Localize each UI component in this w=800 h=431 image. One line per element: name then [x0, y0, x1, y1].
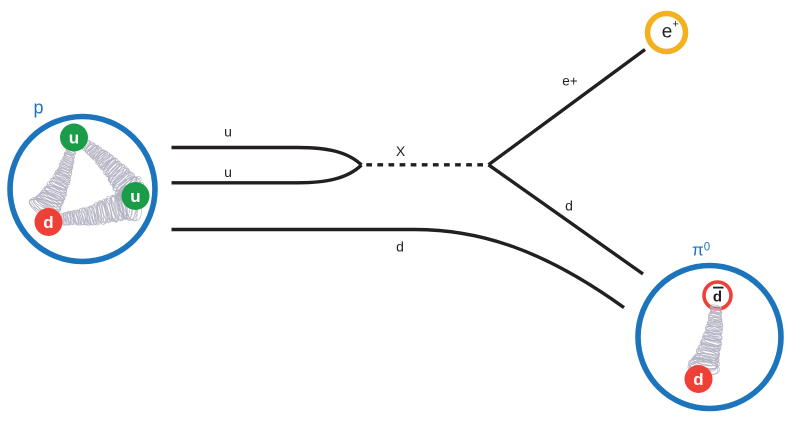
svg-text:d: d: [693, 370, 703, 389]
proton circle: [10, 117, 155, 262]
u quark line (second): [172, 165, 362, 183]
svg-text:d: d: [713, 289, 722, 306]
svg-text:u: u: [130, 187, 140, 206]
svg-text:d: d: [396, 239, 404, 255]
svg-text:e+: e+: [562, 74, 578, 89]
d quark line (from X vertex): [489, 165, 644, 274]
svg-text:p: p: [33, 98, 43, 118]
gluon spring u-u (upper right): [81, 139, 145, 203]
svg-text:d: d: [565, 198, 573, 214]
d quark spectator line (curved): [172, 230, 625, 308]
quark u2: [122, 182, 150, 210]
positron line: [489, 50, 646, 165]
gluon spring u-d (left): [26, 147, 76, 223]
svg-text:d: d: [43, 213, 53, 232]
svg-text:u: u: [69, 129, 79, 148]
svg-text:u: u: [224, 124, 232, 140]
svg-text:X: X: [396, 143, 406, 159]
antiquark dbar circle: [704, 282, 731, 309]
gluon spring d-u (bottom): [59, 183, 145, 227]
pion circle: [638, 266, 781, 409]
u quark line (top): [172, 148, 362, 166]
svg-text:u: u: [224, 164, 232, 180]
quark d (proton): [35, 208, 63, 236]
gluon spring dbar-d (pion): [687, 304, 724, 378]
positron e+ circle: [648, 14, 686, 52]
X boson dashed propagator: [366, 163, 488, 166]
quark d (pion): [685, 365, 713, 393]
quark u1: [60, 124, 88, 152]
